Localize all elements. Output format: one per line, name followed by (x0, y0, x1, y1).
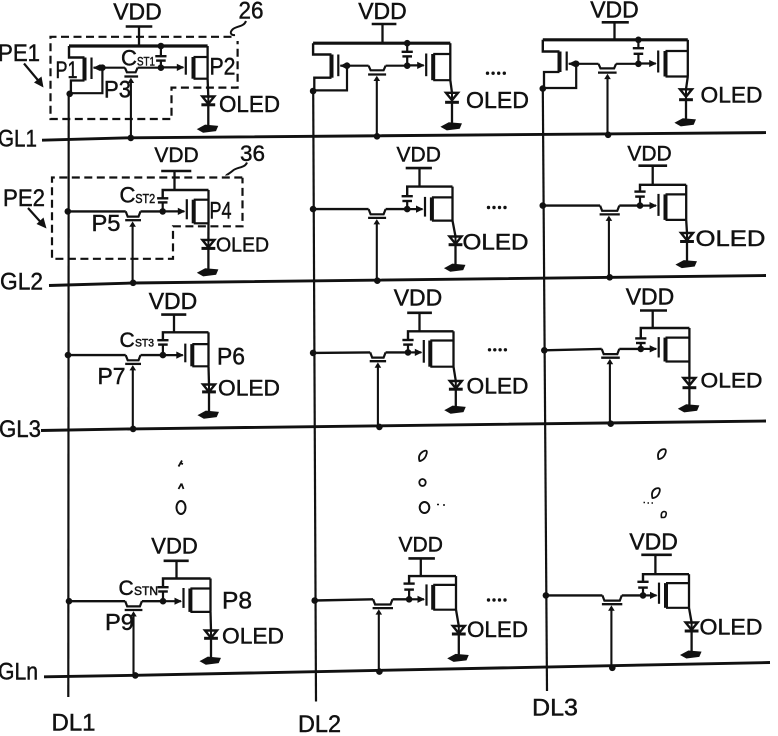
node gate line tap row3 col2 (376, 424, 383, 431)
gate line GL3 (41, 421, 766, 431)
wire VDD drop row2 col2 (418, 168, 420, 187)
svg-text:OLED: OLED (466, 87, 529, 113)
node gate line tap row4 col1 (132, 672, 139, 679)
svg-text:VDD: VDD (154, 144, 198, 167)
svg-text:OLED: OLED (700, 615, 763, 640)
capacitor CST3 (157, 340, 168, 355)
svg-text:OLED: OLED (701, 370, 763, 393)
capacitor CST1 (155, 46, 166, 68)
label transistor P1 (56, 57, 78, 84)
svg-text:P1: P1 (56, 57, 78, 84)
label capacitor CST1 (121, 46, 155, 71)
transistor drive row1 col2 (407, 43, 451, 80)
wire gate node to data line row1 col3 (543, 64, 576, 88)
wire gate of switch row3 col3 to gate line (609, 361, 611, 424)
label transistor P2 (210, 54, 236, 81)
ground OLED row2 col3 (678, 261, 696, 267)
wire pixel row wire row4 col2 (315, 599, 409, 600)
svg-text:VDD: VDD (626, 284, 675, 310)
svg-text:PE2: PE2 (3, 185, 45, 212)
label 26 with leader (231, 0, 264, 35)
svg-text:36: 36 (240, 141, 265, 166)
wire VDD drop PE2 col1 (173, 171, 175, 190)
node data line tap row3 col3 (541, 347, 548, 354)
node data line tap row1 col3 (540, 85, 547, 92)
data line DL3 (543, 89, 547, 691)
OLED diode OLED row3 col1 (202, 366, 216, 411)
OLED label OLED row3 col2 (467, 374, 529, 399)
svg-text:OLED: OLED (218, 376, 280, 401)
VDD terminal bar row1 col2 (372, 23, 397, 26)
label DL2 (298, 711, 341, 736)
ellipsis dots row1 (486, 72, 506, 75)
svg-text:OLED: OLED (219, 91, 280, 117)
transistor switch row4 col3 (602, 595, 622, 610)
node gate line tap row2 col2 (374, 277, 381, 284)
node gate line tap row4 col2 (376, 668, 383, 675)
node data line tap row4 col3 (543, 592, 550, 599)
svg-text:C: C (120, 329, 135, 352)
OLED label OLED row3 col3 (701, 370, 763, 393)
label capacitor CST3 (120, 329, 155, 352)
ground OLED row4 col1 (202, 658, 220, 664)
wire pixel row wire row2 col2 (313, 208, 407, 210)
svg-text:OLED: OLED (463, 230, 529, 255)
transistor select row1 col3 (598, 64, 617, 79)
OLED diode OLED row1 col2 (445, 80, 459, 123)
wire VDD drop row4 col2 (420, 558, 422, 576)
VDD label row3 col1 (149, 288, 198, 314)
svg-text:OLED: OLED (467, 374, 529, 399)
transistor drive row4 col2 (409, 576, 456, 610)
VDD label row4 col3 (629, 529, 678, 555)
label GL1 (0, 126, 37, 153)
ground OLED row3 col3 (680, 405, 698, 411)
svg-text:P2: P2 (210, 54, 236, 81)
node storage capacitor junction row3 col2 (405, 349, 412, 356)
svg-text:C: C (119, 577, 134, 600)
svg-text:P7: P7 (98, 363, 126, 389)
wire VDD drop row4 col3 (654, 555, 656, 574)
OLED label OLED row3 col1 (218, 376, 280, 401)
transistor drive row2 col2 (407, 187, 453, 221)
svg-text:P8: P8 (222, 588, 252, 615)
VDD label row4 col1 (151, 534, 197, 559)
OLED label OLED row4 col2 (467, 617, 528, 642)
svg-text:OLED: OLED (701, 83, 763, 108)
OLED diode OLED row2 col2 (449, 221, 463, 265)
node storage capacitor junction row2 col2 (404, 206, 411, 213)
transistor P5 (125, 211, 141, 226)
svg-text:P3: P3 (104, 77, 131, 104)
node rail-capacitor junction row1 col2 (404, 40, 411, 47)
svg-text:VDD: VDD (113, 0, 162, 25)
node storage capacitor junction row1 col3 (635, 61, 642, 68)
node storage capacitor junction row4 col1 (160, 598, 167, 605)
OLED label OLED row1 col3 (701, 83, 763, 108)
wire gate of P7 to gate line (132, 367, 134, 429)
label transistor P4 (210, 198, 232, 225)
wire pixel row wire row4 col1 (69, 600, 163, 602)
VDD label row3 col2 (394, 285, 443, 311)
node storage capacitor junction row4 col3 (640, 592, 647, 599)
node data line tap row2 col3 (540, 202, 547, 209)
wire pixel row wire row3 col2 (313, 351, 408, 354)
label PE1 with arrow (0, 40, 44, 88)
node data line tap row1 col2 (310, 88, 317, 95)
OLED diode OLED row2 col1 (202, 223, 216, 268)
OLED label OLED row1 col1 (219, 91, 280, 117)
svg-text:OLED: OLED (216, 235, 269, 257)
OLED label OLED row4 col1 (222, 624, 284, 649)
ground OLED row1 col3 (677, 119, 695, 125)
VDD terminal bar row3 col3 (640, 309, 667, 312)
svg-text:P9: P9 (105, 609, 134, 635)
transistor switch row1 col3 (543, 40, 576, 89)
OLED label OLED row2 col1 (216, 235, 269, 257)
svg-text:VDD: VDD (358, 0, 407, 24)
VDD power rail row1 col3 (543, 38, 688, 41)
capacitor C row1 col3 (633, 40, 644, 64)
label transistor P9 (105, 609, 134, 635)
node storage capacitor junction row1 col2 (404, 62, 411, 69)
node gate junction PE1 col1 (99, 64, 106, 71)
OLED diode OLED row3 col3 (683, 362, 697, 405)
svg-text:ST1: ST1 (137, 55, 155, 69)
wire storage node PE1 col1 (102, 67, 160, 69)
label DL1 (52, 710, 96, 736)
wire gate of P9 to gate line (132, 613, 134, 675)
continuation marks column 1 (177, 461, 186, 515)
svg-text:GLn: GLn (0, 659, 38, 686)
transistor switch row3 col2 (370, 352, 386, 367)
wire VDD top lead row4 col2 (409, 576, 456, 583)
transistor select row1 col2 (368, 66, 386, 81)
ground OLED row3 col1 (200, 412, 218, 418)
transistor drive row3 col3 (641, 328, 690, 362)
VDD terminal bar row3 col1 (161, 313, 186, 316)
transistor P3 (124, 68, 138, 83)
transistor P9 (125, 601, 143, 616)
svg-text:P5: P5 (92, 210, 121, 236)
svg-text:P6: P6 (217, 344, 245, 371)
label transistor P8 (222, 588, 252, 615)
node gate junction row1 col3 (573, 61, 580, 68)
wire gate of switch row2 col2 to gate line (376, 221, 378, 281)
svg-text:DL3: DL3 (532, 695, 578, 722)
wire VDD drop row3 col2 (418, 313, 420, 332)
node gate line tap row1 col2 (374, 133, 381, 140)
wire gate of P3 to gate line (130, 80, 132, 138)
wire VDD drop row1 col2 (381, 24, 383, 43)
gate line GL2 (49, 276, 766, 286)
svg-text:ST2: ST2 (135, 192, 155, 206)
node storage capacitor junction row4 col2 (406, 596, 413, 603)
VDD label row4 col2 (399, 534, 443, 557)
OLED label OLED row2 col3 (696, 226, 766, 251)
VDD label row1 col2 (358, 0, 407, 24)
wire VDD drop PE1 col1 (138, 27, 140, 47)
node gate line tap row2 col3 (606, 274, 613, 281)
OLED diode OLED row4 col1 (204, 612, 218, 657)
svg-text:OLED: OLED (696, 226, 766, 251)
wire VDD top lead row3 col1 (163, 332, 209, 339)
wire VDD drop row1 col3 (613, 22, 615, 40)
label GL3 (0, 416, 41, 443)
VDD terminal bar row2 col3 (638, 164, 667, 167)
node gate line tap row3 col3 (607, 420, 614, 427)
wire gate of switch row3 col2 to gate line (377, 364, 379, 427)
label GLn (0, 659, 38, 686)
wire gate of switch row2 col3 to gate line (608, 217, 610, 277)
node gate line tap PE1 col1 (128, 135, 135, 142)
wire gate of select row1 col2 to gate line (376, 78, 378, 137)
wire gate of switch row4 col3 to gate line (610, 607, 612, 668)
label transistor P6 (217, 344, 245, 371)
dashed pixel boundary box 26 (51, 37, 238, 119)
gate line GL1 (42, 133, 766, 141)
wire gate of switch row4 col2 to gate line (378, 611, 380, 672)
transistor switch row4 col2 (373, 599, 393, 614)
node storage capacitor junction row2 col3 (637, 202, 644, 209)
wire pixel row wire PE2 col1 (68, 210, 163, 212)
capacitor C row3 col2 (402, 340, 413, 352)
wire storage node row1 col3 (576, 63, 638, 65)
node rail-capacitor junction row1 col3 (635, 37, 642, 44)
svg-text:GL3: GL3 (0, 416, 41, 443)
VDD terminal bar row4 col1 (164, 559, 189, 562)
OLED diode OLED row2 col3 (680, 220, 694, 261)
node data line tap PE1 col1 (66, 91, 73, 98)
VDD terminal bar PE1 col1 (126, 25, 153, 28)
VDD terminal bar PE2 col1 (161, 170, 191, 173)
label PE2 with arrow (3, 185, 47, 229)
svg-text:OLED: OLED (222, 624, 284, 649)
capacitor C row2 col3 (634, 192, 645, 206)
VDD power rail PE1 col1 (69, 44, 208, 47)
transistor drive row1 col3 (638, 40, 688, 77)
wire pixel row wire row4 col3 (546, 594, 643, 596)
node data line tap row4 col2 (311, 597, 318, 604)
wire VDD top lead row2 col3 (640, 185, 686, 191)
dashed pixel boundary box 36 (52, 178, 243, 259)
wire gate node to data line PE1 col1 (70, 68, 103, 94)
node storage capacitor junction row3 col1 (160, 352, 167, 359)
wire VDD top lead PE2 col1 (163, 190, 209, 198)
transistor switch row2 col2 (368, 209, 386, 224)
transistor P4 (163, 190, 209, 223)
ground OLED row1 col1 (199, 126, 217, 132)
svg-text:PE1: PE1 (0, 40, 40, 67)
node storage capacitor junction row3 col3 (638, 346, 645, 353)
capacitor C row4 col2 (404, 584, 415, 600)
svg-text:C: C (121, 46, 137, 71)
transistor switch row2 col3 (600, 206, 620, 221)
VDD label row2 col3 (627, 143, 671, 166)
capacitor C row4 col3 (637, 582, 648, 596)
wire VDD top lead row3 col2 (408, 331, 454, 339)
wire pixel row wire row2 col3 (543, 204, 640, 206)
svg-text:VDD: VDD (151, 534, 197, 559)
node gate junction row1 col2 (344, 62, 351, 69)
ground OLED row1 col2 (443, 123, 461, 129)
label 36 with leader (226, 141, 265, 176)
node data line tap row3 col1 (65, 352, 72, 359)
label GL2 (0, 269, 43, 296)
ground OLED row2 col1 (199, 269, 217, 275)
wire VDD top lead row4 col1 (163, 579, 211, 587)
capacitor CST2 (157, 198, 168, 211)
node rail-capacitor junction PE1 col1 (158, 43, 165, 50)
VDD label row1 col3 (590, 0, 639, 23)
ground OLED row2 col2 (446, 265, 464, 271)
OLED diode OLED row4 col3 (685, 608, 699, 651)
svg-text:26: 26 (239, 0, 264, 25)
capacitor C row1 col2 (402, 43, 413, 65)
data line DL1 (67, 94, 70, 697)
svg-text:VDD: VDD (629, 529, 678, 555)
VDD label PE2 col1 (154, 144, 198, 167)
VDD terminal bar row1 col3 (602, 21, 629, 24)
ellipsis dots row4 (487, 598, 507, 601)
ellipsis dots row2 (487, 206, 507, 209)
wire pixel row wire row3 col3 (544, 349, 641, 350)
svg-text:ST3: ST3 (135, 338, 154, 350)
transistor switch row1 col2 (313, 43, 347, 91)
capacitor C row2 col2 (402, 196, 413, 209)
transistor P6 (163, 332, 209, 366)
svg-text:VDD: VDD (627, 143, 671, 166)
node gate line tap PE2 col1 (130, 280, 137, 287)
wire pixel row wire row3 col1 (68, 354, 163, 356)
transistor P1 (69, 46, 102, 94)
data line DL2 (313, 91, 316, 702)
VDD label row3 col3 (626, 284, 675, 310)
svg-text:DL2: DL2 (298, 711, 341, 736)
OLED diode OLED row3 col2 (449, 367, 463, 407)
VDD terminal bar row4 col3 (641, 553, 672, 556)
svg-text:VDD: VDD (397, 144, 441, 167)
node gate line tap row4 col3 (609, 665, 616, 672)
svg-text:C: C (120, 183, 136, 208)
svg-text:GL1: GL1 (0, 126, 37, 153)
VDD terminal bar row2 col2 (406, 167, 432, 170)
ground OLED row4 col2 (449, 655, 467, 661)
transistor P2 (161, 46, 208, 79)
OLED diode OLED row1 col1 (201, 79, 215, 126)
VDD terminal bar row4 col2 (408, 557, 435, 560)
wire gate of select row1 col3 to gate line (606, 76, 608, 135)
wire storage node row1 col2 (347, 65, 407, 67)
wire VDD top lead row2 col2 (407, 187, 452, 196)
wire VDD drop row4 col1 (175, 561, 177, 579)
wire VDD top lead row4 col3 (643, 574, 689, 581)
wire VDD drop row3 col3 (652, 311, 654, 329)
svg-text:VDD: VDD (149, 288, 198, 314)
ground OLED row3 col2 (446, 407, 464, 413)
capacitor C row3 col3 (635, 338, 646, 349)
transistor drive row4 col3 (643, 574, 690, 608)
svg-text:DL1: DL1 (52, 710, 96, 736)
svg-text:P4: P4 (210, 198, 232, 225)
svg-text:VDD: VDD (399, 534, 443, 557)
transistor switch row3 col3 (601, 349, 620, 364)
svg-text:GL2: GL2 (0, 269, 43, 296)
capacitor CSTN (157, 587, 168, 601)
OLED label OLED row1 col2 (466, 87, 529, 113)
node gate line tap row1 col3 (605, 132, 612, 139)
transistor P7 (125, 355, 141, 370)
node storage capacitor junction PE2 col1 (159, 208, 166, 215)
transistor drive row3 col2 (408, 331, 454, 366)
OLED diode OLED row1 col3 (679, 77, 693, 119)
continuation marks column 2 (419, 451, 445, 513)
svg-text:VDD: VDD (394, 285, 443, 311)
label transistor P5 (92, 210, 121, 236)
wire VDD top lead row3 col3 (641, 328, 690, 338)
VDD power rail row1 col2 (313, 42, 450, 45)
label transistor P7 (98, 363, 126, 389)
transistor drive row2 col3 (640, 185, 687, 220)
label DL3 (532, 695, 578, 722)
ellipsis dots row3 (488, 348, 507, 351)
node data line tap row4 col1 (66, 598, 73, 605)
gate line GLn (44, 663, 770, 677)
wire VDD drop row2 col3 (652, 166, 654, 185)
OLED label OLED row4 col3 (700, 615, 763, 640)
VDD label PE1 col1 (113, 0, 162, 25)
svg-text:VDD: VDD (590, 0, 639, 23)
OLED diode OLED row4 col2 (452, 610, 466, 655)
node data line tap row2 col2 (310, 206, 317, 213)
transistor P8 (163, 579, 211, 612)
continuation marks column 3 (644, 449, 667, 517)
label transistor P3 (104, 77, 131, 104)
node data line tap row3 col2 (310, 350, 317, 357)
VDD terminal bar row3 col2 (407, 311, 432, 314)
node gate line tap row3 col1 (130, 426, 137, 433)
ground OLED row4 col3 (682, 652, 700, 658)
OLED label OLED row2 col2 (463, 230, 529, 255)
wire gate of P5 to gate line (132, 223, 134, 283)
label capacitor CSTN (119, 577, 159, 600)
node data line tap PE2 col1 (65, 208, 72, 215)
wire gate node to data line row1 col2 (313, 66, 347, 91)
wire VDD drop row3 col1 (173, 315, 175, 333)
svg-text:OLED: OLED (467, 617, 528, 642)
node storage capacitor junction PE1 col1 (158, 64, 165, 71)
label capacitor CST2 (120, 183, 156, 208)
svg-text:STN: STN (134, 586, 158, 598)
VDD label row2 col2 (397, 144, 441, 167)
